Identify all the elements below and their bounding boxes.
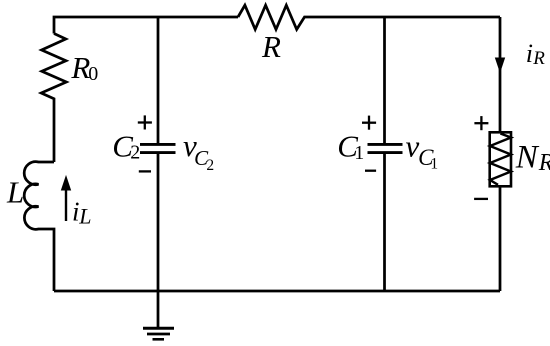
capacitor C1 plates <box>368 144 403 152</box>
svg-text:R: R <box>532 48 545 69</box>
wire C1 branch bottom <box>383 154 386 291</box>
svg-text:1: 1 <box>354 142 364 164</box>
inductor L <box>24 162 54 291</box>
plus/minus C2 <box>138 115 152 171</box>
wire C2 branch bottom <box>157 154 160 291</box>
svg-text:0: 0 <box>88 63 98 85</box>
svg-text:R: R <box>261 29 281 64</box>
svg-text:2: 2 <box>130 142 140 164</box>
wire bottom <box>54 290 500 293</box>
svg-text:L: L <box>78 203 91 228</box>
wire C1 branch top <box>383 17 386 143</box>
current arrow iR head <box>496 58 505 72</box>
resistor R <box>238 5 500 29</box>
ground stem <box>157 291 160 328</box>
resistor R0 <box>41 34 66 163</box>
capacitor C2 plates <box>140 144 176 152</box>
svg-text:i: i <box>526 39 533 68</box>
plus/minus NR <box>474 116 488 199</box>
NR inner zigzag <box>490 134 511 185</box>
svg-text:2: 2 <box>206 157 214 174</box>
svg-text:N: N <box>515 139 540 175</box>
wire C2 branch top <box>157 17 160 143</box>
ground <box>143 328 174 339</box>
svg-text:L: L <box>6 175 24 210</box>
wire top-left segment <box>54 17 238 34</box>
nonlinear resistor NR box <box>490 132 511 186</box>
svg-text:R: R <box>538 150 550 176</box>
current arrow iL <box>65 188 67 221</box>
svg-text:1: 1 <box>430 156 438 173</box>
wire right branch top <box>499 17 502 133</box>
wire right branch bottom <box>499 186 502 291</box>
plus/minus C1 <box>362 116 376 171</box>
